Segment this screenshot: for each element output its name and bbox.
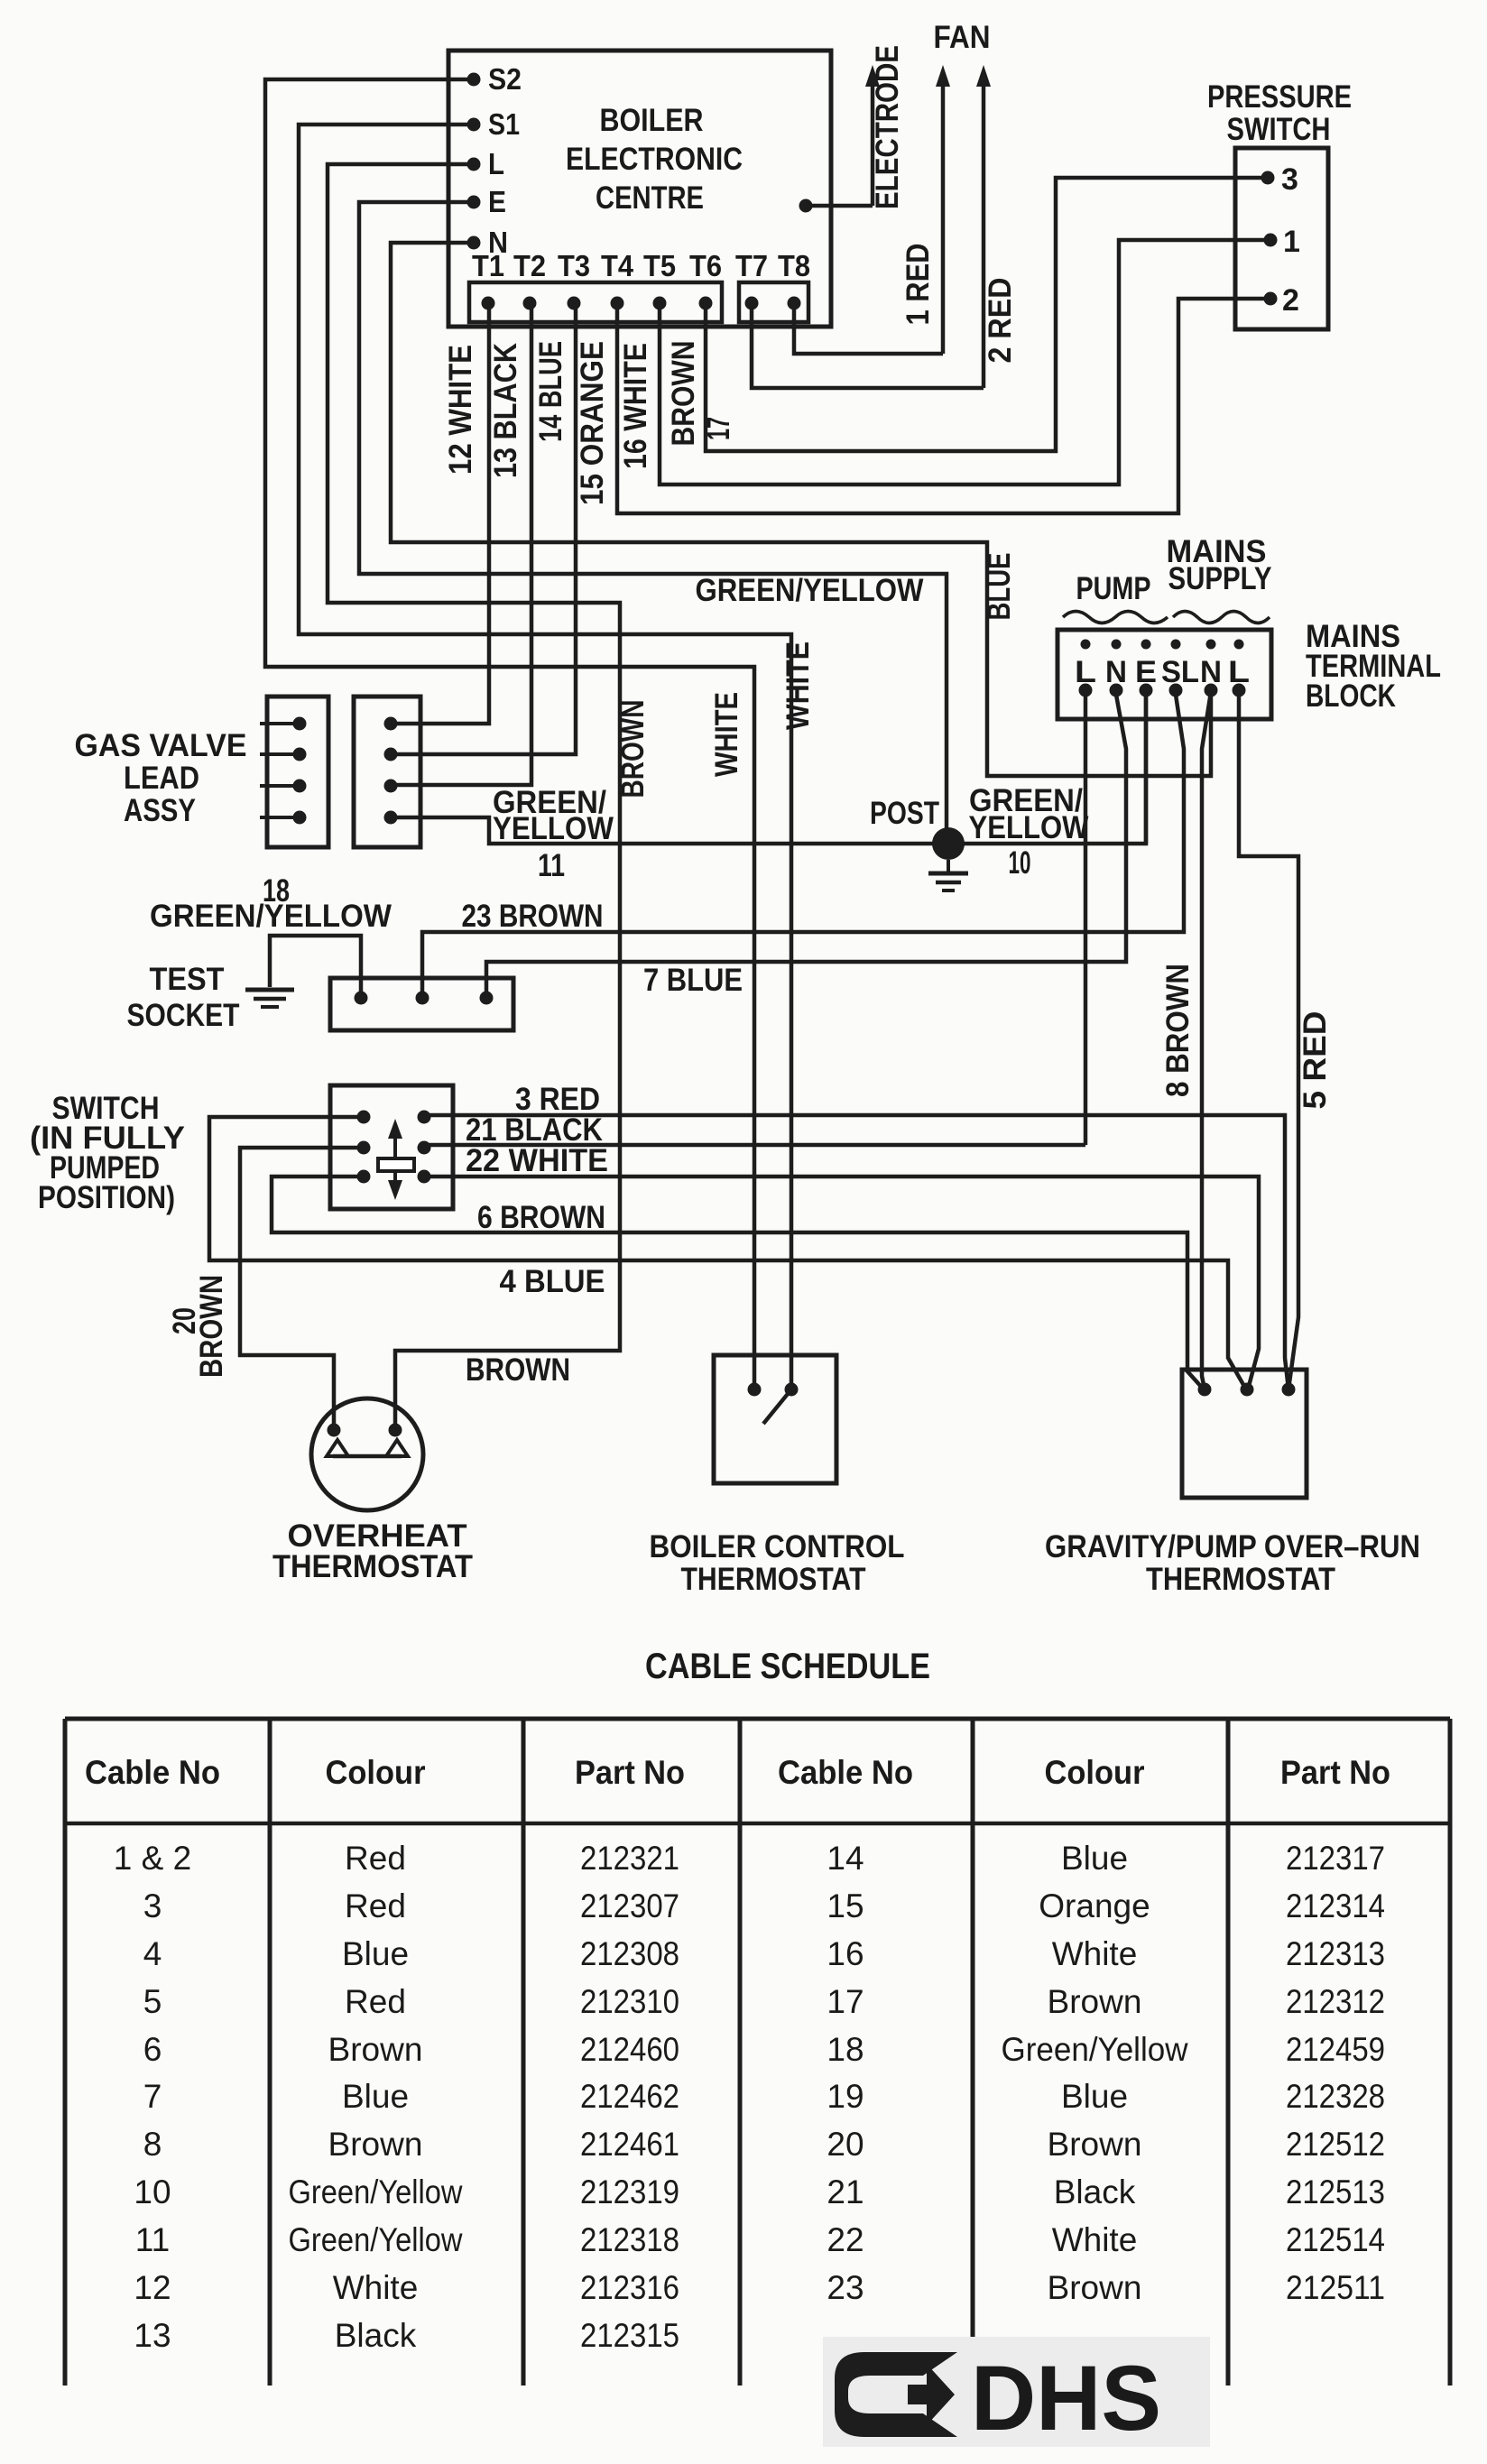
svg-text:YELLOW: YELLOW [493,811,614,846]
svg-text:SOCKET: SOCKET [127,998,240,1033]
svg-text:17: 17 [701,417,736,440]
svg-text:CENTRE: CENTRE [596,180,704,216]
svg-text:16 WHITE: 16 WHITE [618,343,653,469]
svg-text:17: 17 [827,1983,864,2020]
svg-text:GAS VALVE: GAS VALVE [75,728,247,763]
svg-text:19: 19 [827,2078,864,2115]
svg-text:T7: T7 [735,249,768,282]
svg-text:GREEN/YELLOW: GREEN/YELLOW [150,899,392,934]
svg-text:5: 5 [143,1983,162,2020]
svg-text:212461: 212461 [580,2126,679,2163]
svg-text:212511: 212511 [1286,2269,1385,2306]
svg-text:Black: Black [335,2317,417,2354]
svg-text:8 BROWN: 8 BROWN [1160,964,1196,1097]
svg-text:14: 14 [827,1840,864,1877]
svg-text:THERMOSTAT: THERMOSTAT [1146,1562,1335,1597]
svg-text:Cable No: Cable No [778,1754,913,1791]
svg-text:S2: S2 [488,62,522,96]
svg-text:212328: 212328 [1286,2078,1385,2115]
svg-text:Blue: Blue [1061,1840,1128,1877]
svg-text:T6: T6 [689,249,722,282]
svg-text:1 & 2: 1 & 2 [114,1840,191,1877]
svg-text:Colour: Colour [1045,1754,1145,1791]
svg-text:212310: 212310 [580,1983,679,2020]
svg-text:Blue: Blue [342,2078,409,2115]
svg-text:Cable No: Cable No [85,1754,220,1791]
svg-text:212312: 212312 [1286,1983,1385,2020]
svg-text:2 RED: 2 RED [983,278,1018,364]
svg-text:212513: 212513 [1286,2173,1385,2210]
svg-text:10: 10 [1009,845,1031,881]
svg-text:7 BLUE: 7 BLUE [643,963,743,998]
svg-text:T8: T8 [778,249,810,282]
svg-text:11: 11 [135,2221,170,2258]
svg-text:ASSY: ASSY [124,793,196,828]
svg-text:212313: 212313 [1286,1935,1385,1972]
svg-text:2: 2 [1282,283,1299,318]
svg-text:Brown: Brown [328,2031,423,2068]
svg-text:8: 8 [143,2126,162,2163]
svg-text:BROWN: BROWN [194,1275,229,1378]
svg-text:4 BLUE: 4 BLUE [500,1264,605,1299]
svg-text:T5: T5 [643,249,676,282]
svg-text:6 BROWN: 6 BROWN [477,1200,605,1235]
svg-text:SL: SL [1161,655,1199,689]
svg-text:Green/Yellow: Green/Yellow [289,2221,463,2258]
svg-text:BLUE: BLUE [982,553,1017,621]
svg-text:212315: 212315 [580,2317,679,2354]
svg-text:DHS: DHS [971,2347,1161,2450]
svg-text:GRAVITY/PUMP OVER–RUN: GRAVITY/PUMP OVER–RUN [1045,1529,1420,1564]
svg-text:10: 10 [134,2173,171,2210]
svg-text:12: 12 [134,2269,171,2306]
svg-text:3: 3 [1281,162,1298,197]
svg-text:Colour: Colour [326,1754,426,1791]
svg-text:T3: T3 [558,249,590,282]
svg-text:L: L [488,147,504,180]
svg-text:23 BROWN: 23 BROWN [462,899,604,934]
svg-text:ELECTRONIC: ELECTRONIC [566,142,743,177]
svg-text:7: 7 [143,2078,162,2115]
svg-text:13: 13 [134,2317,171,2354]
svg-text:212321: 212321 [580,1840,679,1877]
svg-text:22 WHITE: 22 WHITE [466,1143,608,1178]
svg-text:1 RED: 1 RED [901,244,936,326]
svg-text:Brown: Brown [1048,2126,1142,2163]
svg-text:LEAD: LEAD [124,761,199,796]
svg-text:T1: T1 [472,249,504,282]
svg-text:16: 16 [827,1935,864,1972]
svg-text:11: 11 [538,848,565,883]
svg-text:S1: S1 [488,107,520,141]
svg-text:212514: 212514 [1286,2221,1385,2258]
svg-text:E: E [1135,655,1157,689]
svg-text:15 ORANGE: 15 ORANGE [575,341,610,505]
svg-text:Green/Yellow: Green/Yellow [289,2173,463,2210]
svg-text:212307: 212307 [580,1887,679,1924]
svg-text:ELECTRODE: ELECTRODE [870,45,905,209]
svg-text:BOILER: BOILER [600,103,704,138]
svg-text:Red: Red [345,1840,406,1877]
svg-text:T2: T2 [513,249,546,282]
svg-text:3: 3 [143,1887,162,1924]
svg-text:1: 1 [1283,225,1300,259]
svg-text:212314: 212314 [1286,1887,1385,1924]
svg-text:BROWN: BROWN [666,341,701,447]
svg-text:212462: 212462 [580,2078,679,2115]
svg-text:CABLE SCHEDULE: CABLE SCHEDULE [645,1647,930,1686]
svg-text:Blue: Blue [1061,2078,1128,2115]
svg-text:N: N [1200,655,1222,689]
svg-text:212308: 212308 [580,1935,679,1972]
svg-text:SUPPLY: SUPPLY [1168,561,1272,596]
svg-text:6: 6 [143,2031,162,2068]
svg-text:THERMOSTAT: THERMOSTAT [272,1549,473,1584]
svg-text:Brown: Brown [1048,1983,1142,2020]
svg-text:212512: 212512 [1286,2126,1385,2163]
svg-text:Red: Red [345,1887,406,1924]
svg-text:White: White [1052,2221,1138,2258]
svg-text:PRESSURE: PRESSURE [1207,79,1352,115]
svg-text:Part No: Part No [1280,1754,1390,1791]
svg-text:21: 21 [827,2173,864,2210]
svg-text:18: 18 [827,2031,864,2068]
svg-text:20: 20 [827,2126,864,2163]
svg-text:SWITCH: SWITCH [1227,112,1331,147]
svg-text:Red: Red [345,1983,406,2020]
svg-text:PUMP: PUMP [1076,571,1151,606]
svg-text:BLOCK: BLOCK [1306,678,1396,714]
svg-text:TEST: TEST [150,962,225,997]
svg-text:12 WHITE: 12 WHITE [443,345,478,475]
svg-text:THERMOSTAT: THERMOSTAT [681,1562,866,1597]
svg-text:15: 15 [827,1887,864,1924]
svg-text:14 BLUE: 14 BLUE [533,341,568,442]
svg-text:FAN: FAN [934,20,991,55]
svg-text:Black: Black [1054,2173,1136,2210]
svg-text:L: L [1228,655,1250,689]
svg-text:WHITE: WHITE [780,641,816,730]
svg-text:212319: 212319 [580,2173,679,2210]
svg-text:BOILER CONTROL: BOILER CONTROL [650,1529,905,1564]
svg-text:GREEN/YELLOW: GREEN/YELLOW [696,573,924,608]
svg-text:212317: 212317 [1286,1840,1385,1877]
svg-text:T4: T4 [601,249,634,282]
svg-text:Orange: Orange [1039,1887,1150,1924]
svg-text:POSITION): POSITION) [38,1180,175,1215]
svg-text:4: 4 [143,1935,162,1972]
svg-text:POST: POST [870,796,939,831]
svg-text:Part No: Part No [575,1754,685,1791]
svg-text:23: 23 [827,2269,864,2306]
svg-text:212459: 212459 [1286,2031,1385,2068]
svg-text:13 BLACK: 13 BLACK [488,343,523,478]
svg-text:WHITE: WHITE [709,692,744,777]
svg-text:212318: 212318 [580,2221,679,2258]
svg-text:BROWN: BROWN [615,700,651,798]
svg-text:E: E [488,185,506,218]
svg-text:White: White [1052,1935,1138,1972]
svg-text:YELLOW: YELLOW [969,810,1089,845]
svg-text:N: N [1105,655,1127,689]
svg-text:White: White [333,2269,419,2306]
svg-text:Brown: Brown [1048,2269,1142,2306]
svg-text:22: 22 [827,2221,864,2258]
svg-text:5 RED: 5 RED [1298,1011,1333,1110]
svg-text:L: L [1075,655,1096,689]
svg-text:Green/Yellow: Green/Yellow [1002,2031,1188,2068]
svg-text:Blue: Blue [342,1935,409,1972]
svg-text:212316: 212316 [580,2269,679,2306]
svg-text:Brown: Brown [328,2126,423,2163]
svg-text:212460: 212460 [580,2031,679,2068]
svg-text:BROWN: BROWN [466,1352,570,1388]
